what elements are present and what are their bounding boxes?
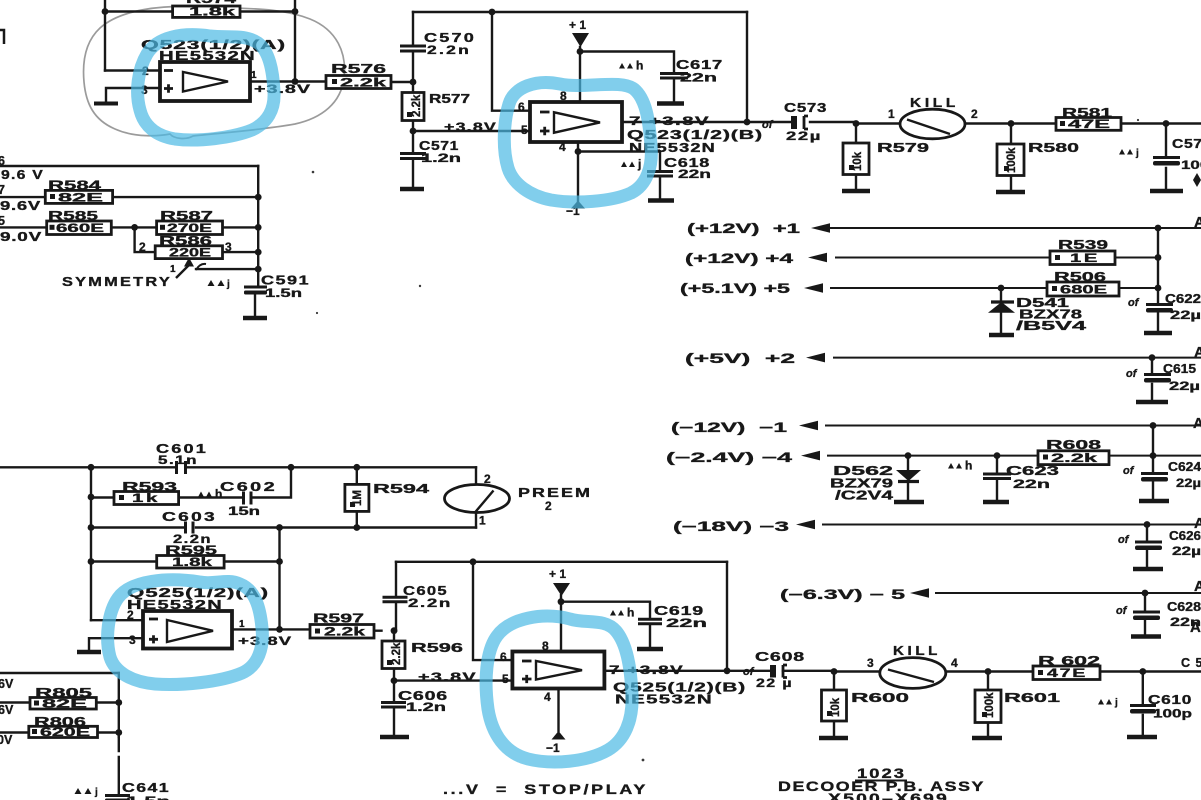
- ground D541: [989, 333, 1014, 337]
- svg-text:j: j: [94, 787, 98, 798]
- capacitor C641: [75, 781, 171, 800]
- capacitor C606: [381, 689, 448, 714]
- mark h C602: [198, 487, 222, 501]
- ground C610: [1127, 735, 1157, 739]
- wire pin6 branch: [492, 12, 530, 111]
- wire C606 stem: [393, 681, 395, 736]
- svg-text:A: A: [1193, 415, 1201, 432]
- capacitor C615: [1126, 362, 1200, 393]
- highlighter loop around Q523B: [504, 83, 651, 202]
- wire pin6 branch: [473, 562, 512, 660]
- wire rail -6.3V -5: [936, 592, 1201, 594]
- wire R586 branch: [135, 227, 259, 252]
- ground R601: [972, 736, 1002, 740]
- mark h C623: [948, 459, 972, 473]
- node KILL4/R601: [985, 668, 992, 675]
- node input/left vertical: [88, 464, 95, 471]
- node R602/C610: [1139, 668, 1146, 675]
- svg-text:6: 6: [0, 154, 5, 168]
- wire R579 to ground: [855, 175, 857, 191]
- ground C615: [1136, 400, 1168, 404]
- node D541: [998, 285, 1005, 292]
- svg-text:A: A: [1194, 344, 1201, 361]
- arrow rail -5: [910, 588, 929, 598]
- op-amp U1 Q523(1/2)(A): [141, 38, 286, 101]
- svg-text:6V: 6V: [0, 677, 14, 691]
- svg-text:22µ: 22µ: [786, 131, 822, 143]
- node rail+4: [1155, 254, 1162, 261]
- arrow rail +2: [806, 353, 825, 363]
- capacitor C628: [1116, 600, 1201, 629]
- resistor R602: [1033, 654, 1100, 680]
- svg-text:1: 1: [239, 619, 245, 630]
- resistor R805: [30, 686, 96, 711]
- svg-text:5: 5: [0, 214, 5, 228]
- highlighter loop around Q525B: [486, 616, 632, 762]
- capacitor C610: [1098, 693, 1192, 721]
- svg-text:2.2k: 2.2k: [411, 94, 423, 117]
- node C603/feedback vertical: [276, 524, 283, 531]
- resistor R595: [157, 544, 224, 569]
- wire KILL4 to R601 node: [946, 670, 1033, 672]
- svg-text:6V: 6V: [0, 703, 14, 717]
- wire R600 to ground: [833, 721, 835, 737]
- svg-text:C575: C575: [1172, 137, 1201, 151]
- svg-text:4: 4: [544, 690, 551, 704]
- arrow rail -3: [796, 520, 815, 530]
- wire feedback vertical x280: [278, 528, 280, 630]
- ground R579: [842, 189, 870, 193]
- svg-text:C591: C591: [261, 274, 310, 288]
- wire R594 stubs: [356, 467, 358, 527]
- svg-text:2: 2: [545, 499, 552, 513]
- svg-text:(+5.1V) +5: (+5.1V) +5: [680, 281, 791, 296]
- wire rail +5V +2: [834, 357, 1201, 359]
- node D562: [905, 452, 912, 459]
- svg-text:(−12V) −1: (−12V) −1: [671, 420, 788, 435]
- svg-text:9.0V: 9.0V: [0, 230, 42, 244]
- wire rail -18V -3: [823, 524, 1201, 526]
- svg-text:C570: C570: [424, 31, 476, 45]
- svg-text:of: of: [1128, 297, 1140, 309]
- capacitor C571: [400, 139, 461, 165]
- pen loop (grey hand-drawn circle around Q523A): [84, 6, 345, 138]
- ground C619: [637, 647, 663, 651]
- svg-text:1k: 1k: [132, 493, 160, 505]
- ground R600: [819, 736, 848, 740]
- wire C617 branch: [580, 52, 674, 104]
- svg-text:2.2n: 2.2n: [427, 45, 471, 57]
- svg-text:620E: 620E: [40, 727, 91, 739]
- capacitor C601: [156, 442, 208, 474]
- capacitor C570: [400, 31, 476, 57]
- svg-text:0V: 0V: [0, 733, 13, 747]
- wire C619 branch: [561, 602, 650, 649]
- wire left vertical: [90, 467, 92, 620]
- ground near Q523A pin3: [94, 102, 118, 106]
- node C623: [994, 452, 1001, 459]
- node R597/C605/R596: [391, 627, 398, 634]
- svg-text:4: 4: [559, 140, 566, 154]
- svg-text:9.6V: 9.6V: [0, 199, 41, 213]
- svg-text:22µ: 22µ: [1170, 310, 1201, 322]
- resistor R580: [997, 141, 1079, 176]
- wire pin7 output row: [605, 670, 834, 672]
- wire C601 input row: [0, 466, 476, 468]
- svg-text:2.2n: 2.2n: [408, 598, 452, 610]
- svg-text:−1: −1: [546, 741, 560, 755]
- capacitor C591: [208, 274, 311, 301]
- ground C628: [1131, 634, 1161, 638]
- svg-text:(−6.3V) − 5: (−6.3V) − 5: [780, 587, 906, 602]
- zener D541: [988, 296, 1086, 333]
- wire C602 row to corner: [251, 467, 291, 497]
- resistor R579: [843, 141, 929, 175]
- svg-text:of: of: [1126, 368, 1138, 380]
- svg-text:2.2k: 2.2k: [324, 627, 366, 639]
- wire loop rail: [396, 561, 727, 563]
- op-amp U2 Q525(1/2)(B): [500, 639, 604, 704]
- ground C624: [1139, 499, 1169, 503]
- capacitor C623: [983, 464, 1059, 491]
- wire rail -2.4V -4: [828, 455, 1201, 457]
- wire right vertical: [118, 673, 120, 737]
- node R577/C571/pin5: [410, 128, 417, 135]
- svg-text:R577: R577: [429, 92, 470, 106]
- arrow rail +4: [808, 253, 827, 263]
- wire vertical -1/-4: [1152, 426, 1154, 456]
- wire right vertical of symmetry block: [257, 166, 259, 285]
- node R596/C606/pin5: [391, 677, 398, 684]
- node KILL2/R580: [1008, 120, 1015, 127]
- wire op-amp U1A pin2: [105, 69, 160, 71]
- node C601/C602 corner: [288, 464, 295, 471]
- svg-text:22µ: 22µ: [1169, 381, 1200, 393]
- node R595/feedback vertical: [276, 558, 283, 565]
- svg-text:22n: 22n: [1013, 479, 1050, 491]
- svg-text:2: 2: [139, 240, 146, 254]
- node R806: [115, 729, 122, 736]
- svg-text:R579: R579: [877, 141, 929, 155]
- svg-text:h: h: [627, 606, 634, 620]
- svg-text:of: of: [1118, 534, 1130, 546]
- label 1023 underlined: [855, 766, 907, 781]
- resistor R806: [29, 715, 98, 739]
- svg-text:C 5: C 5: [1181, 656, 1201, 670]
- svg-text:+3.8V: +3.8V: [254, 82, 311, 96]
- switch PREEM pins 2-1: [445, 472, 593, 528]
- svg-text:C602: C602: [220, 480, 277, 494]
- svg-text:+3.8V: +3.8V: [418, 670, 477, 684]
- mark h C619: [610, 606, 634, 620]
- wire R581 to node: [1121, 122, 1201, 124]
- node output/feedback: [276, 626, 283, 633]
- wire C571 stem: [412, 131, 414, 188]
- resistor R586 (pot): [139, 234, 232, 259]
- svg-text:R574: R574: [186, 0, 236, 6]
- wire R595 row: [91, 560, 280, 562]
- node Q523A output: [292, 78, 299, 85]
- svg-text:3: 3: [867, 656, 874, 670]
- svg-text:C641: C641: [122, 781, 170, 795]
- svg-text:/C2V4: /C2V4: [835, 489, 893, 503]
- svg-text:of: of: [1116, 605, 1128, 617]
- wire +1 supply to pin8: [579, 47, 581, 102]
- svg-text:R600: R600: [851, 691, 909, 705]
- wire C573 to KILL: [856, 122, 900, 124]
- svg-text:1.8k: 1.8k: [189, 7, 236, 19]
- supply +1 arrow lower: [549, 567, 570, 596]
- node rail-5: [1142, 590, 1149, 597]
- node C608/R600: [831, 668, 838, 675]
- capacitor C605: [383, 584, 453, 610]
- node pin4/C618 branch: [575, 148, 582, 155]
- node rail-3: [1144, 521, 1151, 528]
- svg-text:j: j: [1114, 698, 1118, 709]
- svg-text:(−2.4V) −4: (−2.4V) −4: [666, 450, 793, 465]
- svg-text:SYMMETRY: SYMMETRY: [62, 274, 172, 289]
- svg-text:2: 2: [484, 472, 491, 486]
- wire R574 row: [105, 10, 295, 12]
- svg-text:+3.8V: +3.8V: [444, 120, 497, 134]
- svg-text:1: 1: [888, 107, 895, 121]
- wire input row R584: [0, 196, 258, 198]
- svg-text:100p: 100p: [1153, 709, 1192, 721]
- node C573/R579: [853, 120, 860, 127]
- wire pin7 output row: [622, 121, 856, 123]
- wire top feedback rail: [413, 11, 747, 13]
- ground Q525A pin3: [77, 650, 101, 654]
- node R574 left: [102, 8, 109, 15]
- wire right vertical of loop: [746, 12, 748, 122]
- resistor R576: [326, 62, 391, 90]
- svg-text:C601: C601: [156, 442, 208, 456]
- wire pin5 row: [394, 679, 512, 681]
- mark h C617: [619, 59, 643, 73]
- svg-text:82E: 82E: [58, 193, 104, 205]
- svg-text:KILL: KILL: [893, 644, 941, 658]
- partial mark top-left edge: [0, 30, 4, 44]
- resistor R587: [157, 209, 223, 235]
- svg-text:(−18V) −3: (−18V) −3: [673, 519, 790, 534]
- svg-text:660E: 660E: [56, 223, 105, 235]
- wire R577 stubs: [412, 82, 414, 131]
- wire D562 stems: [907, 456, 909, 501]
- capacitor C618: [647, 156, 711, 181]
- resistor R574: [173, 0, 240, 19]
- svg-text:220E: 220E: [169, 247, 212, 259]
- wire top row: [0, 672, 119, 674]
- arrow rail -1: [799, 421, 818, 431]
- svg-text:1: 1: [251, 70, 257, 81]
- wire op-amp U1A pin3 to ground: [106, 88, 160, 103]
- svg-text:PREEM: PREEM: [518, 485, 592, 500]
- wire R602 to node: [1100, 670, 1201, 672]
- wire pin2 row: [91, 619, 143, 621]
- svg-text:X500–X699: X500–X699: [828, 791, 949, 800]
- ground R580: [996, 190, 1025, 194]
- wire pin3 to ground: [89, 638, 143, 651]
- svg-text:2.2k: 2.2k: [1051, 453, 1098, 465]
- resistor R584: [45, 179, 112, 205]
- wire symmetry wiper row: [196, 268, 258, 270]
- svg-text:C619: C619: [654, 604, 704, 618]
- supply -1 arrow lower: [546, 731, 566, 755]
- ground C591: [243, 316, 267, 320]
- ground C571: [400, 187, 424, 191]
- svg-text:j: j: [637, 157, 641, 171]
- zener D562: [830, 464, 921, 503]
- svg-text:h: h: [965, 459, 972, 473]
- svg-text:8: 8: [542, 639, 549, 653]
- wire C570 branch vertical: [412, 12, 414, 82]
- svg-text:j: j: [1135, 148, 1139, 159]
- wire C608 to KILL3: [834, 670, 880, 672]
- capacitor C626: [1118, 529, 1201, 558]
- svg-text:22µ: 22µ: [1172, 546, 1201, 558]
- supply +1 arrow: [569, 18, 589, 47]
- svg-text:7 +3.8V: 7 +3.8V: [609, 663, 684, 677]
- wire C575 stub: [1165, 124, 1167, 191]
- wire C623 stems: [996, 456, 998, 501]
- wire C626 stems: [1146, 525, 1148, 569]
- node row3/vertical: [255, 249, 262, 256]
- wire C624 stems: [1152, 456, 1154, 500]
- node rail/pin6: [489, 9, 496, 16]
- svg-text:NE5532N: NE5532N: [629, 141, 716, 155]
- wire pin4 down: [557, 689, 559, 732]
- resistor R581: [1056, 106, 1121, 131]
- node R805: [115, 699, 122, 706]
- node R574 right: [292, 8, 299, 15]
- svg-text:(+12V) +1: (+12V) +1: [687, 221, 801, 236]
- svg-text:100µ: 100µ: [1181, 160, 1201, 172]
- arrow rail +1: [811, 223, 830, 233]
- svg-text:3: 3: [129, 633, 136, 647]
- resistor R539: [1050, 238, 1115, 265]
- capacitor C603: [162, 510, 217, 546]
- wire rail -12V -1: [826, 425, 1201, 427]
- svg-text:22n: 22n: [666, 618, 707, 630]
- op-amp U1 Q523(1/2)(B): [518, 89, 622, 154]
- wire rail vertical +1/+4/+5: [1157, 228, 1159, 288]
- svg-text:+ 1: + 1: [569, 18, 586, 32]
- svg-text:47E: 47E: [1047, 668, 1087, 680]
- capacitor C617: [660, 58, 723, 85]
- svg-text:of: of: [1123, 465, 1135, 477]
- svg-text:1: 1: [479, 514, 486, 528]
- wire R601 stub: [987, 672, 989, 691]
- svg-text:C571: C571: [419, 139, 459, 153]
- ground C606: [380, 735, 409, 739]
- svg-text:680E: 680E: [1060, 285, 1108, 297]
- resistor R601: [975, 690, 1060, 723]
- wire C641 stem: [118, 737, 120, 793]
- svg-text:2: 2: [971, 107, 978, 121]
- svg-text:C606: C606: [398, 689, 448, 703]
- svg-text:2.2k: 2.2k: [391, 642, 403, 665]
- svg-text:R594: R594: [373, 482, 429, 496]
- svg-text:4: 4: [951, 656, 958, 670]
- svg-text:R576: R576: [331, 62, 386, 76]
- node left vertical R593: [88, 494, 95, 501]
- capacitor C608: [743, 650, 805, 690]
- arrow rail +5: [804, 283, 823, 293]
- svg-text:1.2n: 1.2n: [406, 702, 446, 714]
- wire C591 stem: [254, 294, 256, 317]
- wire rail +5.1V +5: [831, 287, 1158, 289]
- wire C628 stems: [1144, 593, 1146, 635]
- wire KILL to R580 node: [965, 122, 1056, 124]
- wire pin5 +3.8V row: [413, 130, 530, 132]
- node row1/vertical: [255, 194, 262, 201]
- resistor R577: [402, 92, 470, 121]
- scan speckles: [312, 119, 1139, 761]
- svg-text:R601: R601: [1004, 691, 1060, 705]
- resistor R593: [114, 480, 179, 505]
- wire input row 9.6V: [0, 165, 258, 167]
- svg-text:C618: C618: [664, 156, 710, 170]
- svg-text:47E: 47E: [1068, 119, 1111, 131]
- wire R580 to ground: [1010, 176, 1012, 192]
- ground C626: [1133, 567, 1163, 571]
- node wiper/vertical: [255, 266, 262, 273]
- wire C615 stems: [1151, 358, 1153, 401]
- svg-text:1.2n: 1.2n: [421, 153, 461, 165]
- svg-text:6: 6: [518, 100, 525, 114]
- svg-text:C603: C603: [162, 510, 217, 524]
- resistor R506: [1047, 270, 1119, 297]
- capacitor C573: [762, 101, 827, 143]
- resistor R594: [345, 482, 429, 511]
- node left vertical R595: [88, 558, 95, 565]
- wire C610 stub: [1142, 672, 1144, 737]
- switch KILL pins 1-2: [888, 96, 978, 139]
- capacitor C619: [638, 604, 707, 630]
- wire output row: [232, 629, 382, 630]
- svg-text:22 µ: 22 µ: [756, 678, 793, 690]
- resistor R585: [47, 209, 112, 235]
- ground C622: [1144, 331, 1172, 335]
- node +1/C619: [558, 598, 565, 605]
- node rail+1: [1155, 225, 1162, 232]
- node output/right rail: [724, 667, 731, 674]
- wire R601 to ground: [987, 723, 989, 738]
- svg-text:C608: C608: [755, 650, 805, 664]
- svg-text:C573: C573: [784, 101, 827, 115]
- wire R576 to node: [391, 81, 413, 83]
- wire input row R585: [0, 226, 258, 228]
- pot wiper arrow SYMMETRY: [170, 258, 206, 279]
- svg-text:C623: C623: [1006, 464, 1059, 478]
- svg-text:R580: R580: [1028, 141, 1079, 155]
- wire left vertical to R574 row: [104, 0, 106, 71]
- op-amp U2 Q525(1/2)(A): [127, 586, 269, 649]
- wire C605 branch: [395, 562, 397, 631]
- diamond right edge: [1193, 173, 1201, 187]
- ground C575: [1150, 189, 1183, 193]
- node rail+2: [1149, 354, 1156, 361]
- svg-text:C617: C617: [676, 58, 723, 72]
- svg-text:+ 1: + 1: [549, 567, 566, 581]
- resistor R596: [382, 641, 463, 669]
- ground C623: [983, 500, 1009, 504]
- node R585/R587: [131, 224, 138, 231]
- svg-text:C624: C624: [1168, 460, 1201, 474]
- svg-text:1.5n: 1.5n: [265, 288, 302, 300]
- wire right vertical from top to output: [294, 0, 296, 82]
- svg-text:R596: R596: [411, 641, 463, 655]
